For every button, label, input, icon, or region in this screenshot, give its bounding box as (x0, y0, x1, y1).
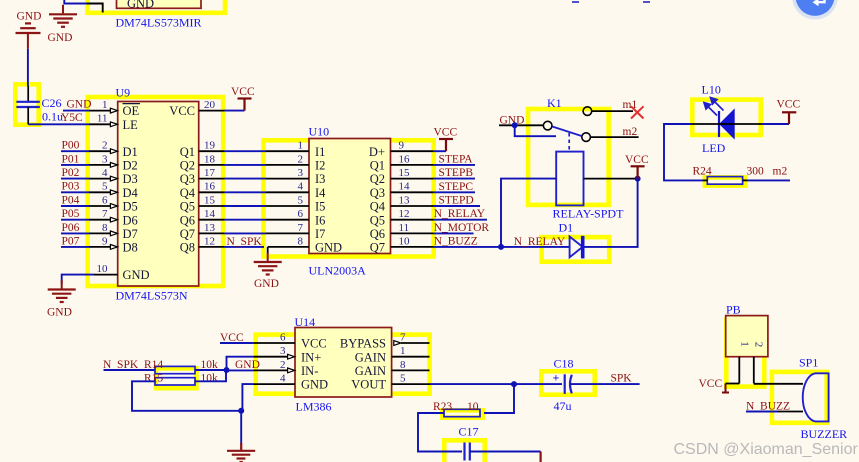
svg-text:I1: I1 (315, 145, 325, 159)
svg-text:PB: PB (726, 303, 741, 317)
svg-text:0.1u: 0.1u (42, 110, 63, 124)
svg-text:7: 7 (400, 331, 406, 343)
svg-text:16: 16 (399, 153, 411, 165)
svg-text:19: 19 (204, 140, 216, 152)
svg-text:SPK: SPK (611, 373, 633, 385)
svg-text:D4: D4 (123, 186, 139, 200)
net labels P00-P07 (62, 140, 80, 248)
highlight box R14 R15 (156, 368, 197, 388)
capacitor C26 0.1u (16, 86, 39, 124)
header PB (726, 316, 768, 357)
svg-text:GND: GND (17, 11, 42, 23)
resistor R23 10 (444, 409, 480, 416)
wire C18 to SPK (570, 383, 639, 385)
svg-text:GND: GND (301, 378, 328, 392)
svg-text:GND: GND (127, 0, 154, 11)
svg-text:IN+: IN+ (301, 350, 321, 364)
svg-text:LM386: LM386 (296, 400, 332, 414)
svg-text:10: 10 (467, 401, 479, 413)
wire m1 + no-connect X (592, 110, 633, 112)
wire to relay pole pin (515, 125, 556, 136)
svg-text:Q6: Q6 (370, 227, 385, 241)
svg-text:LED: LED (702, 141, 726, 155)
svg-text:47u: 47u (554, 399, 572, 413)
wire R14 to junction (195, 369, 227, 371)
svg-text:14: 14 (399, 181, 411, 193)
svg-text:RELAY-SPDT: RELAY-SPDT (553, 207, 625, 221)
svg-text:R24: R24 (693, 166, 712, 178)
svg-text:GND: GND (48, 32, 73, 44)
U10 pin numbers (298, 140, 304, 248)
svg-text:N_SPK: N_SPK (227, 236, 263, 248)
svg-text:6: 6 (298, 208, 304, 220)
svg-text:D5: D5 (123, 200, 138, 214)
svg-text:Q3: Q3 (180, 172, 195, 186)
svg-text:3: 3 (280, 345, 286, 357)
ground below U14 (227, 443, 255, 462)
U10 pins right (391, 151, 434, 247)
svg-text:6: 6 (280, 331, 286, 343)
wire through LED (692, 123, 761, 125)
U9 pins right (199, 111, 224, 247)
svg-text:Q7: Q7 (370, 241, 385, 255)
svg-text:m2: m2 (773, 166, 788, 178)
svg-text:Y5C: Y5C (61, 112, 83, 124)
svg-text:9: 9 (399, 140, 405, 152)
wire VOUT to C18/SPK (430, 383, 563, 385)
relay coil (556, 152, 583, 206)
svg-text:R14: R14 (144, 359, 163, 371)
U9 pin names (123, 104, 150, 282)
svg-text:VCC: VCC (169, 104, 195, 118)
svg-text:Q3: Q3 (370, 186, 385, 200)
power VCC at U10 pin9 (433, 150, 446, 152)
svg-text:N_RELAY: N_RELAY (434, 208, 486, 220)
svg-text:U14: U14 (295, 315, 316, 329)
svg-text:DM74LS573N: DM74LS573N (116, 289, 188, 303)
svg-text:OE: OE (123, 104, 140, 118)
highlight box K1 relay (528, 109, 609, 205)
wire D1 cathode to VCC (585, 179, 638, 247)
junction (224, 367, 230, 373)
wire gnd to C26 (27, 49, 29, 86)
svg-text:13: 13 (399, 194, 411, 206)
top cut text dashes (572, 1, 579, 3)
IC top partial DM74LS573MIR (117, 0, 202, 11)
svg-text:P03: P03 (62, 181, 80, 193)
svg-text:K1: K1 (547, 96, 562, 110)
wire VCC to PB pin1 (726, 383, 740, 385)
svg-text:1: 1 (298, 140, 304, 152)
wires U9 Q1-Q8 to U10 (224, 151, 266, 247)
svg-text:5: 5 (298, 194, 304, 206)
svg-text:1: 1 (102, 99, 108, 111)
svg-text:300: 300 (747, 166, 765, 178)
svg-text:7: 7 (298, 222, 304, 234)
svg-text:VOUT: VOUT (351, 378, 386, 392)
PB pins (739, 357, 754, 384)
ground GND (top, under wire) (49, 5, 77, 27)
svg-text:+: + (553, 371, 560, 385)
wire LED to R24 (664, 124, 703, 180)
junction at VCC (635, 176, 641, 182)
capacitor C17 (465, 443, 470, 461)
svg-text:D8: D8 (123, 241, 138, 255)
svg-text:9: 9 (102, 235, 108, 247)
wire junction down to R23 (484, 384, 514, 413)
wire OE net (63, 110, 89, 112)
svg-text:GND: GND (67, 99, 92, 111)
ground below U10 (254, 253, 282, 275)
U9 wires P00-P07 (61, 151, 89, 247)
highlight box U10 (264, 140, 434, 256)
svg-text:L10: L10 (702, 83, 721, 97)
svg-text:GND: GND (254, 278, 279, 290)
svg-text:P02: P02 (62, 167, 80, 179)
svg-text:VCC: VCC (231, 86, 255, 98)
wire to top IC gnd pin (87, 4, 103, 13)
svg-text:2: 2 (102, 140, 108, 152)
wire gnd to relay common (499, 124, 543, 126)
highlight box R23 (442, 410, 482, 417)
svg-text:P00: P00 (62, 140, 80, 152)
svg-text:D6: D6 (123, 213, 138, 227)
svg-text:2: 2 (298, 153, 304, 165)
svg-text:GND: GND (235, 359, 260, 371)
svg-text:BUZZER: BUZZER (801, 427, 848, 441)
svg-text:P07: P07 (62, 235, 80, 247)
svg-text:I6: I6 (315, 213, 325, 227)
svg-text:10k: 10k (201, 372, 219, 384)
highlight box SP1 (772, 372, 827, 423)
svg-text:C17: C17 (459, 425, 479, 439)
svg-text:D1: D1 (123, 145, 138, 159)
junction (512, 122, 518, 128)
power VCC at U9 pin20 (224, 110, 245, 112)
svg-text:4: 4 (280, 373, 286, 385)
svg-text:20: 20 (204, 99, 216, 111)
U9 input pin arrows (110, 108, 117, 249)
svg-text:11: 11 (399, 222, 410, 234)
svg-text:5: 5 (400, 373, 406, 385)
svg-text:I3: I3 (315, 172, 325, 186)
wire U10 pin8 to gnd (267, 247, 269, 254)
svg-text:N_RELAY: N_RELAY (514, 236, 566, 248)
svg-text:R15: R15 (144, 372, 163, 384)
svg-text:15: 15 (399, 167, 411, 179)
wire down to ground (240, 411, 242, 444)
wire m2 (590, 136, 638, 138)
highlight box PB (726, 320, 764, 387)
svg-text:BYPASS: BYPASS (340, 337, 386, 351)
svg-text:R23: R23 (433, 401, 452, 413)
svg-text:VCC: VCC (699, 378, 723, 390)
svg-text:STEPC: STEPC (439, 181, 474, 193)
svg-text:LE: LE (123, 118, 139, 132)
highlight box top IC (88, 0, 226, 13)
highlight box C18 (541, 371, 594, 394)
U9 pin numbers (97, 99, 109, 275)
wire R15 right to junction (195, 370, 226, 381)
highlight box L10 LED (692, 100, 760, 135)
svg-text:10: 10 (399, 235, 411, 247)
svg-text:4: 4 (102, 167, 108, 179)
svg-text:GND: GND (47, 307, 72, 319)
svg-text:12: 12 (399, 208, 410, 220)
wire U14 pin4 down (242, 384, 253, 411)
ground stub at C17 (539, 452, 541, 462)
svg-text:1: 1 (739, 341, 751, 347)
wire junction to IN+ (227, 357, 254, 370)
svg-text:8: 8 (400, 359, 406, 371)
svg-text:1: 1 (400, 345, 406, 357)
svg-text:6: 6 (102, 194, 108, 206)
svg-text:GND: GND (123, 268, 150, 282)
svg-text:I7: I7 (315, 227, 325, 241)
wire U9 pin10 to gnd (62, 275, 94, 284)
wire R15 left to ground rail (132, 381, 241, 411)
highlight box C26 (15, 84, 38, 124)
svg-text:D+: D+ (369, 145, 385, 159)
svg-text:P06: P06 (62, 222, 80, 234)
power VCC at LED (782, 112, 796, 124)
svg-text:P01: P01 (62, 153, 80, 165)
capacitor C18 47u (553, 371, 572, 394)
U14 pin numbers (280, 331, 286, 384)
svg-text:Q4: Q4 (370, 200, 386, 214)
svg-text:14: 14 (204, 208, 216, 220)
wire relay coil left leg (501, 179, 556, 247)
relay contact m2 (582, 133, 591, 142)
svg-text:C26: C26 (42, 96, 62, 110)
svg-text:17: 17 (204, 167, 216, 179)
U14 pins left (253, 343, 295, 384)
highlight box U14 (256, 335, 430, 394)
floating action button (792, 0, 838, 20)
svg-text:VCC: VCC (301, 337, 327, 351)
svg-text:D7: D7 (123, 227, 138, 241)
svg-text:D2: D2 (123, 159, 138, 173)
svg-text:P05: P05 (62, 208, 80, 220)
wire LE net (28, 123, 89, 125)
highlight box C17 (444, 440, 484, 462)
svg-text:N_MOTOR: N_MOTOR (434, 222, 490, 234)
resistor R14 10k (155, 366, 195, 373)
svg-text:VCC: VCC (777, 99, 801, 111)
ground below U9 (48, 280, 76, 302)
svg-text:VCC: VCC (625, 154, 649, 166)
svg-text:U9: U9 (116, 86, 131, 100)
svg-text:12: 12 (204, 235, 215, 247)
transistor-array U10 body ULN2003A (309, 139, 391, 254)
wire C17 right to gnd (470, 451, 541, 453)
svg-text:Q1: Q1 (370, 159, 385, 173)
svg-text:SP1: SP1 (799, 356, 818, 370)
U14 pins right (392, 343, 430, 384)
op-amp U14 body LM386 (295, 328, 392, 398)
wire R24 to m2 (747, 179, 790, 181)
svg-text:3: 3 (298, 167, 304, 179)
svg-text:DM74LS573MIR: DM74LS573MIR (116, 16, 202, 30)
svg-text:C18: C18 (554, 357, 574, 371)
svg-text:U10: U10 (309, 125, 330, 139)
svg-text:15: 15 (204, 194, 216, 206)
svg-text:GAIN: GAIN (355, 364, 386, 378)
op-amp U9 body DM74LS573N (118, 102, 199, 287)
highlight box R24 (705, 177, 746, 185)
svg-text:8: 8 (298, 235, 304, 247)
diode D1 (570, 236, 585, 259)
relay switch arm (552, 127, 581, 137)
highlight box U9 (88, 97, 224, 286)
svg-text:Q5: Q5 (370, 213, 385, 227)
svg-text:18: 18 (204, 153, 216, 165)
svg-text:I2: I2 (315, 159, 325, 173)
U10 pin names (315, 145, 342, 255)
svg-text:Q2: Q2 (180, 159, 195, 173)
wire top-left gnd net (64, 0, 87, 4)
svg-text:N_BUZZ: N_BUZZ (434, 235, 478, 247)
svg-text:CSDN @Xiaoman_Senior: CSDN @Xiaoman_Senior (674, 441, 859, 458)
svg-text:Q8: Q8 (180, 241, 195, 255)
highlight box D1 (542, 237, 610, 262)
svg-text:m2: m2 (623, 126, 638, 138)
junction at D1 (498, 244, 504, 250)
svg-text:IN-: IN- (301, 364, 318, 378)
svg-text:7: 7 (102, 208, 108, 220)
svg-text:Q5: Q5 (180, 200, 195, 214)
power VCC at relay (631, 166, 645, 178)
svg-text:Q2: Q2 (370, 172, 385, 186)
wire relay coil right leg (584, 178, 638, 180)
svg-text:ULN2003A: ULN2003A (309, 264, 367, 278)
U10 pins left (266, 151, 309, 247)
wire PB pin2 to buzzer (754, 383, 803, 385)
svg-text:STEPB: STEPB (439, 167, 474, 179)
svg-text:2: 2 (753, 342, 765, 348)
svg-text:I4: I4 (315, 186, 326, 200)
svg-text:5: 5 (102, 181, 108, 193)
svg-text:Q6: Q6 (180, 213, 195, 227)
svg-text:I5: I5 (315, 200, 325, 214)
wire R23 left down to C17 (418, 413, 462, 452)
resistor R24 300 (703, 177, 747, 185)
svg-text:4: 4 (298, 181, 304, 193)
svg-text:11: 11 (97, 113, 108, 125)
svg-text:2: 2 (280, 359, 286, 371)
junction (511, 381, 517, 387)
svg-text:16: 16 (204, 181, 216, 193)
relay contact m1 (583, 107, 592, 116)
svg-text:Q4: Q4 (180, 186, 196, 200)
relay actuation dashed link (568, 133, 570, 152)
svg-text:STEPD: STEPD (439, 195, 474, 207)
resistor R15 10k (155, 378, 195, 385)
svg-text:13: 13 (204, 222, 216, 234)
svg-text:Q7: Q7 (180, 227, 195, 241)
svg-text:STEPA: STEPA (439, 153, 474, 165)
U9 pins left (89, 111, 118, 275)
svg-text:3: 3 (102, 153, 108, 165)
ground GND (top-left, inverted above wire) (16, 23, 41, 48)
svg-text:GND: GND (315, 241, 342, 255)
svg-text:8: 8 (102, 222, 108, 234)
junction (238, 408, 244, 414)
svg-text:GAIN: GAIN (355, 350, 386, 364)
svg-text:D1: D1 (559, 221, 574, 235)
svg-text:Q1: Q1 (180, 145, 195, 159)
svg-text:VCC: VCC (434, 127, 458, 139)
relay common contact (543, 121, 552, 130)
svg-text:10: 10 (97, 263, 109, 275)
svg-text:P04: P04 (62, 194, 80, 206)
svg-text:D3: D3 (123, 172, 138, 186)
U14 pin names (301, 337, 328, 392)
